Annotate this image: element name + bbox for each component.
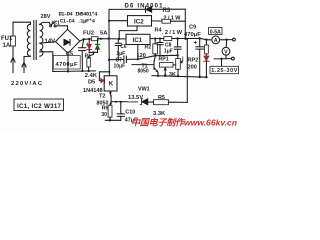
svg-text:220V/AC: 220V/AC [11,81,43,87]
svg-text:K-1: K-1 [52,20,60,26]
svg-text:.2/1W: .2/1W [162,30,183,36]
svg-text:RP2: RP2 [188,57,199,63]
svg-text:C9: C9 [189,24,196,30]
svg-text:C6: C6 [120,44,127,50]
svg-text:30: 30 [101,112,107,118]
svg-text:C5: C5 [66,52,73,58]
svg-text:1A: 1A [3,43,11,49]
svg-text:8050: 8050 [138,69,149,75]
svg-text:FU1: FU1 [1,36,13,42]
svg-text:.2/1W: .2/1W [161,16,182,22]
svg-text:中国电子制作: 中国电子制作 [131,118,186,128]
svg-text:IC2: IC2 [134,18,144,25]
svg-text:D1-D4 IN5401*4: D1-D4 IN5401*4 [59,12,99,18]
svg-text:120: 120 [137,53,146,59]
svg-text:10μF: 10μF [114,64,126,70]
svg-text:3.3K: 3.3K [153,111,166,117]
svg-text:13.5V: 13.5V [128,95,143,101]
svg-text:IC1: IC1 [133,37,143,44]
svg-text:D5: D5 [88,80,95,86]
svg-text:C10: C10 [125,109,135,115]
svg-text:T2: T2 [99,93,106,99]
svg-text:R6: R6 [102,105,109,111]
svg-text:R5: R5 [158,95,165,101]
svg-text:1μF: 1μF [116,51,125,57]
svg-text:FU2: FU2 [83,30,94,36]
svg-text:V: V [224,49,228,55]
svg-text:1μF: 1μF [164,48,173,54]
svg-text:0-5A: 0-5A [210,29,221,35]
svg-text:C1-C4 .1μF*4: C1-C4 .1μF*4 [60,19,96,25]
svg-text:28V: 28V [41,14,51,20]
svg-text:1.25-30V: 1.25-30V [211,68,237,74]
svg-text:D6 IN4001: D6 IN4001 [125,4,164,10]
svg-text:14V: 14V [45,39,56,45]
svg-text:www.66kv.cn: www.66kv.cn [184,118,237,128]
svg-text:R2: R2 [145,44,152,50]
svg-text:VW1: VW1 [138,86,150,92]
svg-text:RP1: RP1 [159,57,169,63]
svg-text:3K: 3K [169,72,176,78]
svg-text:A: A [214,38,218,44]
svg-text:K: K [109,81,114,88]
svg-text:R3: R3 [163,8,171,14]
svg-text:IC1, IC2 W317: IC1, IC2 W317 [17,103,62,110]
svg-text:200: 200 [188,65,197,71]
svg-text:5A: 5A [100,30,108,36]
svg-text:R1: R1 [85,54,92,60]
svg-text:470μF: 470μF [184,32,201,38]
svg-text:4700μF: 4700μF [56,62,78,68]
svg-text:2.4K: 2.4K [85,73,98,79]
